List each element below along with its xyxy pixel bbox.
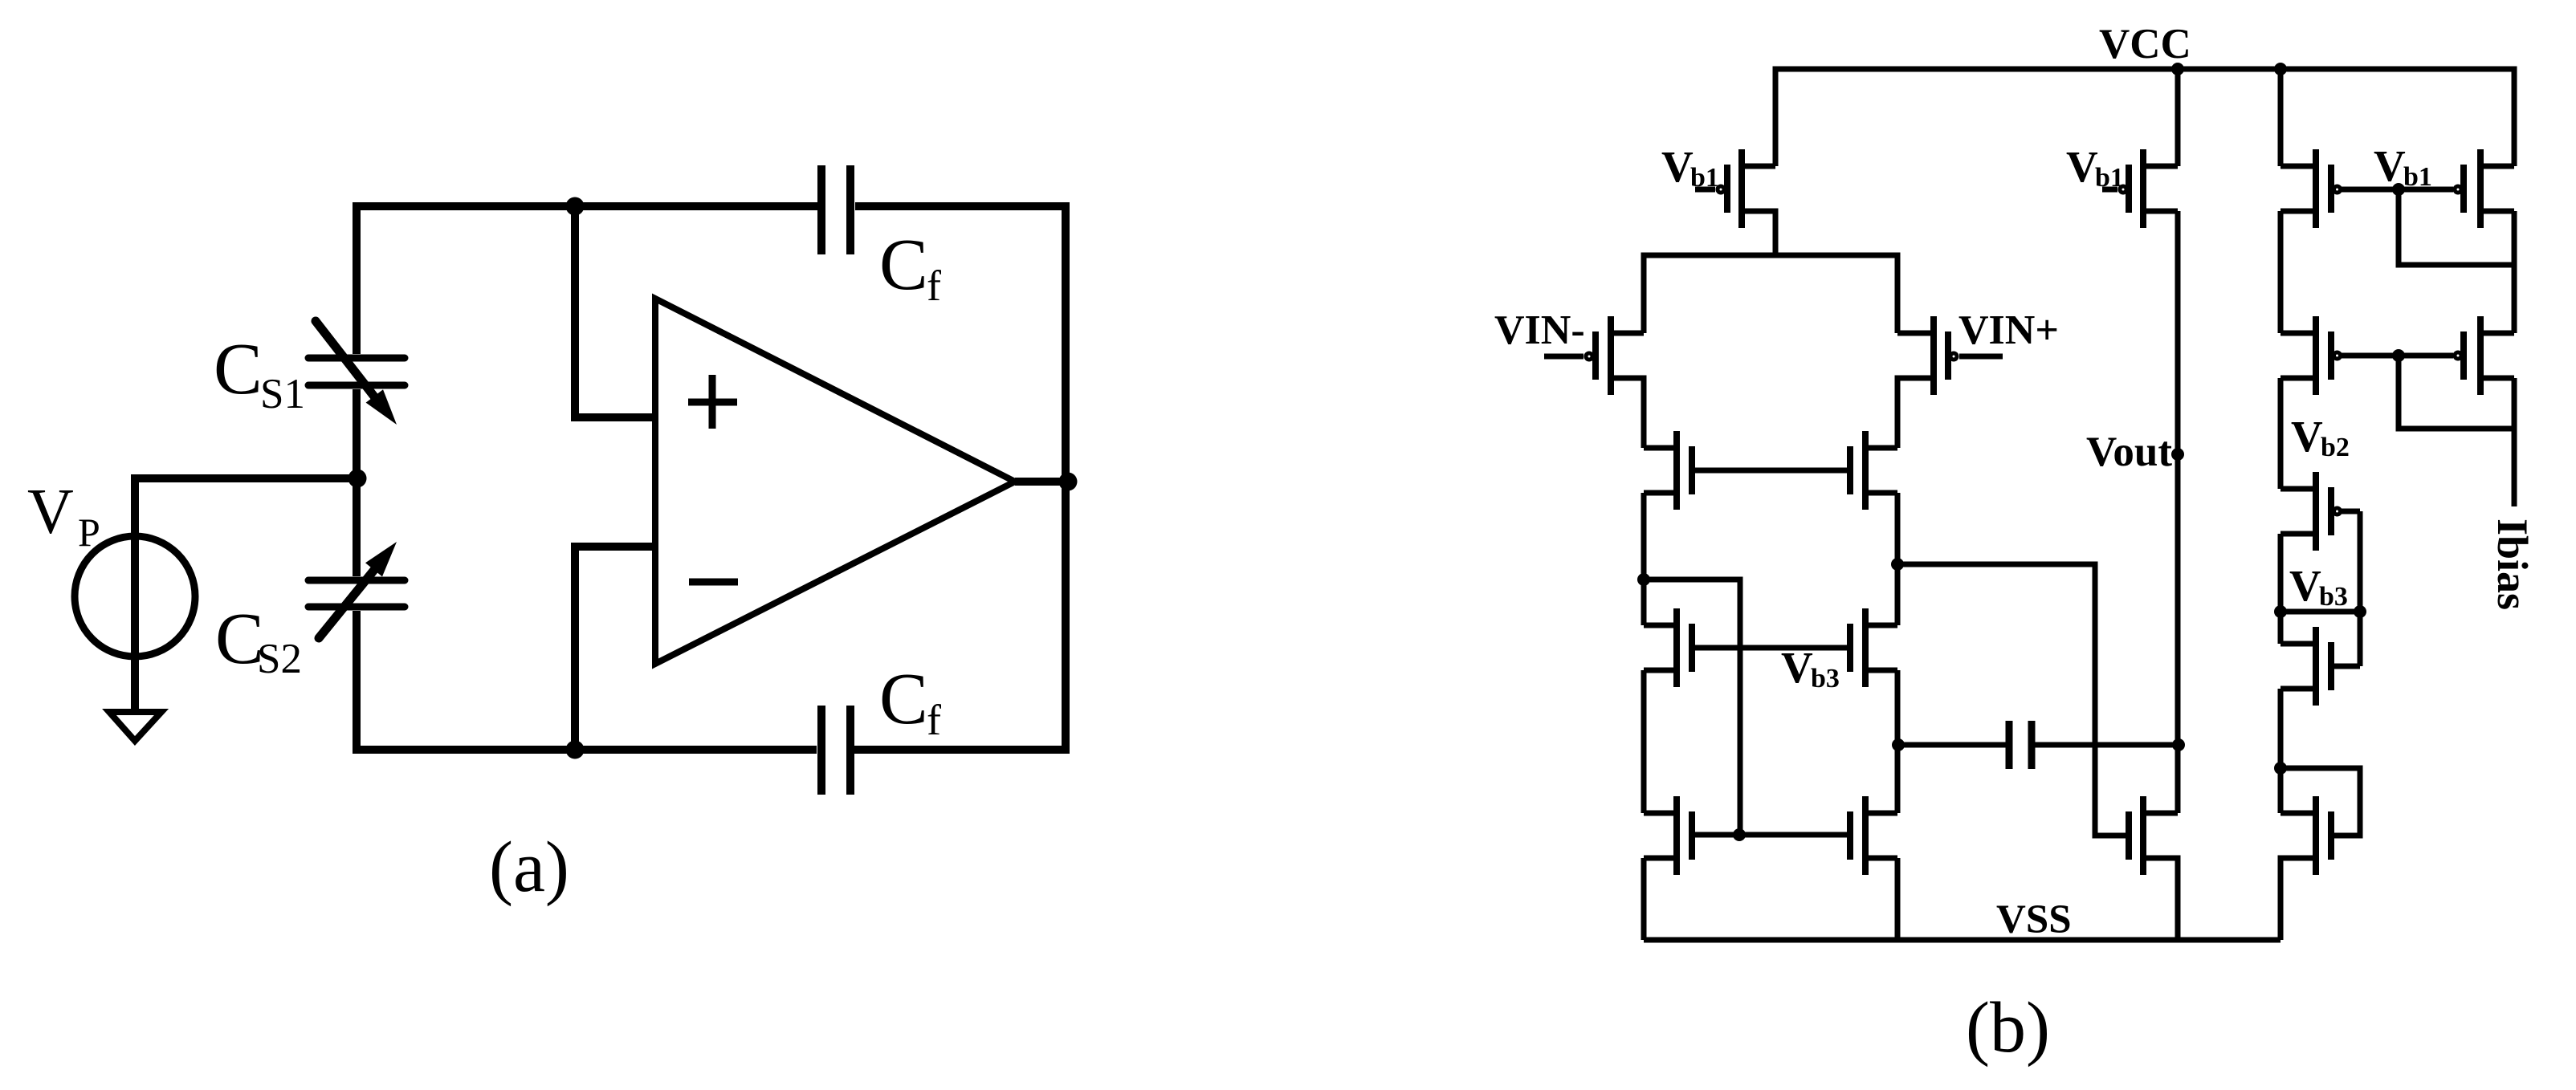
transistor M12 gate bar [2328,165,2334,213]
transistor M6 source lead [1644,668,1677,673]
svg-text:b3: b3 [1811,664,1840,693]
transistor M1 gate bubble [1718,186,1724,193]
wire: VCC rail with end drops [1775,69,2514,166]
transistor M14 bias PMOS row2 left: channel bar [2313,316,2319,395]
wire: cascode gate bus M4-M5 [1692,468,1850,474]
transistor M12 source lead [2280,209,2316,214]
transistor M8 bottom-left mirror NMOS: channel bar [1673,796,1680,875]
wire: left column M4 source down past branch node [1641,493,1647,625]
transistor M18 source lead to VSS end [2280,858,2316,940]
svg-text:(b): (b) [1966,988,2050,1068]
transistor M9 drain lead [1865,811,1897,816]
wire: Vb3 bus [2280,609,2360,615]
wire: M16 source down to Vb3 bus [2278,534,2284,612]
transistor M7 source lead [1865,668,1897,673]
capacitor CS2 top plate [308,577,405,584]
transistor M17 Vb3 NMOS: gate lead [2331,664,2360,669]
svg-text:V: V [27,477,74,547]
node: top junction dot [566,197,585,216]
node: compensation cap right dot on Vout column [2172,738,2185,751]
transistor M17 channel bar [2313,627,2319,706]
transistor M12 drain lead [2280,164,2316,169]
wire: right bias column M13 source to M15 drain [2512,211,2517,333]
wire: CS2 down to bottom rail, bottom rail left segment [357,611,817,750]
transistor M16 gate bar [2328,487,2334,535]
wire: top rail right segment and right vertical to bottom rail [854,206,1066,750]
wire: M17 source down to M18 gate node [2278,689,2284,813]
svg-text:b2: b2 [2321,433,2350,462]
wire: mirror gate bus M8-M9 [1692,832,1850,838]
transistor M1 channel bar [1738,149,1745,228]
svg-text:Ibias: Ibias [2488,519,2537,610]
node: row2 gate node dot [2392,349,2405,362]
transistor M9 bottom-right mirror NMOS: channel bar [1862,796,1869,875]
transistor M16 gate bubble [2334,508,2341,514]
svg-text:b1: b1 [2095,163,2124,193]
transistor M1 source lead and drop to diff-pair rail [1742,211,1775,255]
transistor M13 gate bar [2460,165,2467,213]
svg-text:f: f [927,696,941,744]
transistor M17 drain lead [2280,641,2316,647]
transistor M3 source lead [1897,331,1934,336]
transistor M15 channel bar [2477,316,2484,395]
wire: left column M8 source to VSS rail [1641,858,1647,940]
transistor M3 gate bar [1945,331,1951,380]
transistor M14 source lead [2280,376,2316,381]
transistor M1 tail PMOS: gate lead [1695,187,1715,193]
transistor M4 source lead [1644,490,1677,496]
transistor M6 gate bar [1689,624,1695,672]
op-amp plus sign [688,375,737,429]
node: M18 diode gate dot [2274,762,2287,775]
svg-text:b1: b1 [1690,163,1719,193]
node: input junction dot [348,470,367,488]
capacitor Cc right plate [2028,721,2036,769]
wire: op-amp output stub [1015,478,1066,486]
transistor M10 Vb1 PMOS at Vout column: gate lead [2102,187,2117,193]
transistor M2 gate bubble [1586,353,1592,360]
wire: input node down to CS2 [353,478,361,576]
capacitor CS1 variable arrow shaft [316,321,374,397]
svg-text:P: P [78,510,100,555]
node: VCC dot at bias column [2274,63,2287,75]
wire: Vb1 row gate wire [2342,187,2453,193]
transistor M16 Vb2 PMOS: channel bar [2313,472,2319,551]
wire: row2 gate wire [2342,353,2453,359]
voltage source VP circle [75,536,195,657]
wire: right column M5 source down past output branch node [1895,493,1901,625]
transistor M5 right cascode NMOS: channel bar [1862,431,1869,510]
capacitor Cf top right plate [846,165,854,254]
transistor M3 drain lead and drop [1897,378,1934,448]
transistor M14 drain lead [2280,331,2316,336]
wire: op-amp minus input to bottom rail [575,547,655,750]
transistor M13 bias PMOS Vb1 row right: gate bubble [2455,186,2461,193]
transistor M12 gate bubble [2334,186,2341,193]
svg-text:VIN-: VIN- [1494,307,1585,353]
transistor M2 VIN- input PMOS: gate lead [1544,354,1584,360]
transistor M3 VIN+ input PMOS: gate lead [1959,354,2003,360]
transistor M18 diode NMOS: channel bar [2313,796,2319,875]
transistor M6 drain lead [1644,623,1677,628]
node: left branch dot [1637,573,1650,586]
wire: branch to mirror gate column [1644,580,1740,835]
transistor M15 bias PMOS row2 right: gate bubble [2455,352,2461,359]
wire: right column M7 source down to compensation node [1895,670,1901,813]
capacitor Cc left plate [2006,721,2013,769]
transistor M7 drain lead [1865,623,1897,628]
capacitor CS1 top plate [308,355,405,362]
transistor M7 right mirror cascode: channel bar [1862,608,1869,687]
svg-text:VCC: VCC [2099,21,2191,67]
node: VCC dot at Vout column [2171,63,2184,75]
transistor M4 drain lead [1644,445,1677,451]
wire: left bias column M14 source to M16 drain [2278,378,2284,489]
capacitor Cf top left plate [817,165,825,254]
transistor M1 drain lead [1742,164,1775,169]
svg-text:V: V [1781,643,1813,692]
transistor M9 gate bar [1847,811,1853,860]
node: output junction dot [1059,473,1078,491]
transistor M17 gate bar [2328,642,2334,690]
node: Vb3 bus left dot [2274,605,2287,618]
transistor M4 left cascode NMOS: channel bar [1673,431,1680,510]
transistor M10 gate bar [2126,165,2132,213]
transistor M15 gate bar [2460,331,2467,380]
transistor M15 drain lead [2480,331,2514,336]
wire: bias column from VCC to M12 drain [2278,69,2284,166]
node: compensation cap left dot [1892,738,1905,751]
transistor M4 gate bar [1689,446,1695,494]
transistor M13 source lead [2480,209,2514,214]
svg-text:V: V [1661,142,1694,191]
transistor M11 drain lead [2143,811,2178,816]
wire: left column M6 source down to M8 drain [1641,670,1647,813]
capacitor Cf bottom right plate [846,706,854,795]
transistor M2 gate bar [1592,331,1599,380]
wire: diff-pair source rail [1644,255,1897,333]
svg-text:C: C [879,224,928,305]
wire: Vb1 diode connection [2399,189,2514,265]
transistor M14 gate bubble [2334,352,2341,359]
wire: Vb3 bus dot down to M17 drain [2278,612,2284,644]
capacitor CS2 variable arrow head [365,542,397,576]
svg-text:f: f [927,262,941,310]
wire: Ibias stub [2512,378,2517,506]
wire: compensation cap left wire [1898,742,2006,748]
transistor M8 gate bar [1689,811,1695,860]
wire: between CS1 and input node [353,389,361,478]
svg-text:C: C [879,658,928,739]
transistor M7 gate bar [1847,624,1853,672]
svg-text:VSS: VSS [1996,897,2072,942]
transistor M13 channel bar [2477,149,2484,228]
transistor M16 drain lead [2280,486,2316,492]
transistor M8 drain lead [1644,811,1677,816]
svg-text:V: V [2066,142,2098,191]
capacitor CS1 bottom plate [308,382,405,389]
svg-text:Vout: Vout [2086,429,2172,475]
node: bottom junction dot [566,741,585,759]
wire: right column M9 source to VSS rail [1895,858,1901,940]
transistor M5 drain lead [1865,445,1897,451]
transistor M10 channel bar [2140,149,2146,228]
transistor M6 left mirror cascode: channel bar [1673,608,1680,687]
wire: Vout column from VCC to M10 drain [2175,69,2181,166]
svg-text:V: V [2289,561,2321,610]
transistor M10 drain lead [2143,164,2178,169]
wire: compensation cap right wire to Vout column [2035,742,2178,748]
node: Vout dot [2171,448,2184,461]
transistor M3 channel bar [1930,316,1937,395]
wire: row2 diode connection [2399,356,2514,429]
transistor M12 bias PMOS Vb1 row left: channel bar [2313,149,2319,228]
svg-text:(a): (a) [489,828,569,907]
transistor M13 drain lead [2480,164,2514,169]
svg-text:V: V [2374,141,2406,190]
wire: Vout column M10 source down to M11 drain [2175,211,2181,813]
wire: VP source horizontal and vertical through circle [135,478,357,712]
transistor M10 source lead [2143,209,2178,214]
transistor M11 source lead to VSS [2143,858,2178,940]
node: right branch dot (second stage gate node) [1891,558,1904,571]
transistor M16 gate lead to Vb3 column [2342,509,2360,514]
ground symbol [109,712,161,741]
transistor M16 source lead [2280,531,2316,537]
node: Vb1 gate node dot [2392,183,2405,196]
op-amp minus sign [689,579,738,586]
transistor M11 gate bar [2126,811,2132,860]
transistor M8 source lead [1644,856,1677,861]
svg-text:S1: S1 [260,371,305,417]
wire: Vb3 gate bus M6-M7 [1692,645,1850,651]
capacitor CS2 variable arrow shaft [319,570,374,638]
svg-text:VIN+: VIN+ [1958,307,2059,353]
transistor M5 source lead [1865,490,1897,496]
svg-text:b3: b3 [2319,582,2348,612]
transistor M10 gate bubble [2120,186,2126,193]
wire: VSS rail [1644,937,2280,943]
node: mirror gate bus dot [1733,828,1746,841]
transistor M2 drain lead and drop [1611,378,1644,448]
transistor M3 gate bubble [1950,353,1957,360]
wire: left bias column M12 source to M14 drain [2278,211,2284,333]
capacitor Cf bottom left plate [817,706,825,795]
wire: op-amp plus input from top rail [575,206,655,417]
capacitor CS2 bottom plate [308,604,405,611]
transistor M2 channel bar [1608,316,1614,395]
transistor M1 gate bar [1724,165,1730,213]
svg-text:C: C [214,328,263,409]
transistor M14 gate bar [2328,331,2334,380]
transistor M9 source lead [1865,856,1897,861]
svg-text:b1: b1 [2403,162,2432,192]
capacitor CS1 variable arrow head [366,389,397,425]
wire: branch to output transistor gate [1897,564,2129,836]
wire: top rail left segment with left vertical drop to CS1 [357,206,818,354]
wire: M18 diode gate loop [2280,768,2360,836]
transistor M11 output NMOS: channel bar [2140,796,2146,875]
transistor M17 source lead [2280,686,2316,692]
transistor M5 gate bar [1847,446,1853,494]
svg-text:S2: S2 [257,636,302,682]
transistor M15 source lead [2480,376,2514,381]
node: Vb3 bus right dot [2354,605,2366,618]
wire: gate column M16 bubble through bus to M17 gate [2358,511,2363,666]
transistor M18 gate bar [2328,811,2334,860]
op-amp U1 triangle [655,299,1015,664]
transistor M18 drain lead [2280,811,2316,816]
svg-text:V: V [2291,412,2323,461]
transistor M2 source lead [1611,331,1644,336]
